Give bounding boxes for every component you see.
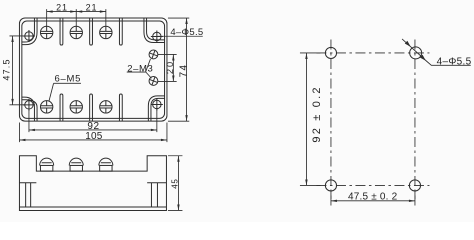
svg-text:6–M5: 6–M5 [55,74,82,85]
side view baseplate line [19,206,166,208]
svg-text:45: 45 [171,178,180,188]
dimension 45 (side view) [168,156,183,211]
dimension 47.5 (left) [9,36,25,105]
mounting hole top-left (Φ5.5) [23,30,35,42]
terminal slot top 3 [119,18,122,45]
label 4-Φ5.5 (top view) [157,35,203,37]
side view dome screw 1 [40,158,54,171]
svg-text:47.5 ± 0. 2: 47.5 ± 0. 2 [348,191,398,202]
top view inner cover edge [22,21,165,118]
label 6-M5 [49,83,81,101]
flange groove bottom-left [22,97,37,121]
terminal slot top 1 [60,18,63,45]
svg-text:21: 21 [86,2,98,12]
mounting hole bottom-right (Φ5.5) [151,98,163,110]
svg-text:2–M3: 2–M3 [127,63,153,74]
pattern hole bottom-right [409,180,420,191]
center line vertical left column [330,39,332,199]
side view dome screw 3 [99,158,113,171]
center line vertical right column [414,39,416,199]
side view body outline [19,156,166,211]
dimension 20 (right of M3 screws) [158,54,177,81]
dimension 92 (bottom) [29,108,157,132]
svg-text:47.5: 47.5 [1,58,11,80]
terminal slot top 2 [90,18,93,45]
center line horizontal bottom row [316,184,429,186]
dimension 105 (bottom) [19,122,167,142]
terminal slot bottom 3 [119,94,122,121]
terminal slot bottom 2 [90,94,93,121]
M3 control screw lower [149,77,158,86]
dimension 47.5 ±0.2 (pattern bottom) [331,191,415,205]
pattern hole bottom-left [325,180,336,191]
M5 terminal screw bottom 2 [70,101,82,113]
side view right boss lines [151,183,157,207]
M5 terminal screw top 1 [40,26,52,38]
svg-text:4–Φ5.5: 4–Φ5.5 [437,57,472,68]
flange groove top-right [144,18,165,42]
M5 terminal screw top 3 [100,26,112,38]
label 4-Φ5.5 (pattern) with diagonal leader [402,39,471,65]
top view outer body outline [19,18,167,121]
M5 terminal screw bottom 1 [40,101,52,113]
center line horizontal top row [316,52,429,54]
svg-text:20: 20 [165,60,175,74]
side view left boss lines [26,183,31,207]
M3 control screw upper [149,50,158,59]
pattern hole top-left [325,47,336,58]
pattern hole top-right [410,47,422,59]
terminal slot bottom 1 [60,94,63,121]
side view flange ledge left [19,182,36,184]
M5 terminal screw top 2 [70,26,82,38]
dimension 21 21 (top) [47,9,106,26]
svg-text:105: 105 [85,131,103,142]
flange groove bottom-right [148,96,164,121]
svg-text:21: 21 [56,2,68,12]
side view dome screw 2 [69,158,83,171]
flange groove top-left [22,18,37,45]
svg-text:92 ± 0.2: 92 ± 0.2 [311,85,323,142]
label 2-M3 [127,59,152,78]
dimension 74 (right) [168,18,189,121]
side view flange ledge right [147,182,166,184]
mounting hole bottom-left (Φ5.5) [23,99,35,111]
mounting hole top-right (Φ5.5) [151,30,163,42]
dimension 92 ±0.2 (pattern left) [300,53,321,186]
svg-text:74: 74 [178,64,189,78]
M5 terminal screw bottom 3 [100,101,112,113]
